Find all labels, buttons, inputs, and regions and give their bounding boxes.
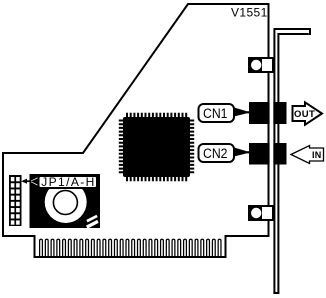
connector CN2 block [249,143,287,165]
bracket [273,28,310,293]
svg-text:V1551: V1551 [231,6,268,20]
oscillator component (black block) [30,174,101,228]
stripe marks [86,215,99,229]
bracket screw tab bottom [249,206,273,220]
card outline [3,4,269,257]
OUT arrow [293,102,323,125]
label CN1 [199,104,251,122]
svg-text:CN2: CN2 [203,146,228,161]
label CN2 [199,144,251,162]
oscillator disc [45,181,87,223]
label JP1/A-H [21,175,97,189]
jumper block JP1 pins [9,175,22,226]
svg-text:CN1: CN1 [203,106,228,121]
edge connector fingers [40,239,221,256]
IN arrow [291,146,324,164]
connector CN1 block [249,102,287,124]
IC chip U1 [121,115,192,179]
bracket screw tab top [249,58,273,72]
svg-text:OUT: OUT [294,109,315,120]
svg-text:JP1/A-H: JP1/A-H [41,175,95,189]
svg-text:IN: IN [312,150,322,160]
oscillator inner circle [53,191,77,215]
